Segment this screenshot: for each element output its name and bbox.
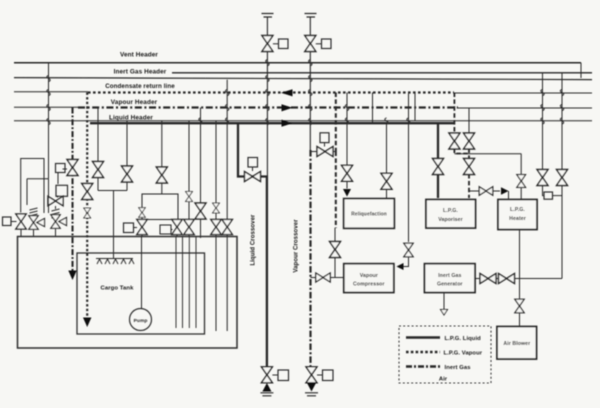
svg-text:L.P.G. Liquid: L.P.G. Liquid bbox=[445, 336, 482, 342]
arrow: inert gas into tank bbox=[68, 271, 76, 281]
valve on vent mast 1 bbox=[262, 36, 273, 52]
wire: square to inert valve stub bbox=[63, 168, 68, 170]
arrow: shore connection vapour bbox=[307, 383, 316, 392]
wire: reliq inlet col x349 bbox=[346, 93, 348, 189]
wire: thick liquid drop to vaporizer x438 bbox=[437, 123, 439, 198]
wire: dome left drop bbox=[141, 235, 143, 237]
wire: col x542.5 bbox=[543, 73, 545, 196]
svg-text:Heater: Heater bbox=[509, 216, 526, 222]
wire: dome square stub bbox=[171, 229, 173, 231]
vent mast 2 riser bbox=[309, 17, 311, 150]
actuator square shore liquid bbox=[272, 370, 288, 381]
reliquefaction box bbox=[344, 199, 395, 229]
wire: square to valve stub bbox=[11, 221, 17, 223]
wire: dome right drop bbox=[176, 235, 178, 237]
valve col x349 bbox=[342, 165, 353, 181]
vent mast 1 riser bbox=[266, 17, 268, 177]
shore flange bars vapour bbox=[305, 393, 318, 396]
shore flange bars liquid bbox=[260, 393, 273, 396]
arrow into reliquefaction bbox=[343, 189, 351, 197]
relief valve cluster 1 body (3-way) bbox=[29, 216, 45, 230]
dome square below bbox=[160, 225, 171, 234]
valve on vapour return drop bbox=[82, 184, 93, 200]
arrow: vapour header right arrow bbox=[282, 104, 293, 111]
svg-text:Vent Header: Vent Header bbox=[120, 52, 158, 59]
valve col x384 bbox=[381, 173, 392, 189]
label: L.P.G. Heater bbox=[509, 207, 526, 222]
LPG vaporizer box bbox=[426, 200, 476, 229]
spray nozzles bbox=[97, 259, 134, 264]
shore valve vapour crossover bbox=[306, 367, 317, 383]
valve col x200.5 bbox=[195, 203, 206, 219]
wire: liquid crossover (thick) bbox=[238, 123, 267, 367]
wire: condensate thin right bbox=[454, 92, 592, 94]
wire: condensate drop to branch (dashed) bbox=[335, 93, 337, 229]
valve on vent mast 2 bbox=[305, 36, 316, 52]
legend box bbox=[399, 326, 491, 383]
wire: square stack stems bbox=[57, 173, 60, 198]
loops mast1 at headers bbox=[266, 60, 269, 66]
tank internal line 4 bbox=[195, 237, 197, 329]
actuator square stack upper bbox=[56, 164, 66, 173]
svg-text:Reliquefaction: Reliquefaction bbox=[351, 212, 387, 218]
legend line LPG vapour bbox=[406, 351, 440, 354]
valve col x469 lower bbox=[464, 159, 475, 175]
valve col x161.8 bbox=[156, 167, 167, 183]
label: Vapour Compressor bbox=[353, 273, 385, 288]
arrow on heater branch bbox=[501, 187, 509, 194]
wire: spray col a x101 bbox=[97, 108, 99, 163]
valve on liquid crossover horizontal bbox=[245, 172, 261, 182]
wire: reliq bottom to compressor col x337.5 bbox=[334, 228, 336, 278]
wire: Inert Gas Header line bbox=[172, 72, 592, 74]
small valve dome left edge bbox=[139, 208, 146, 218]
vent mast 2 top bars bbox=[305, 14, 317, 18]
relief valve cluster 2 lower body (3-way) bbox=[51, 215, 67, 229]
wire: Liquid Header line (thick solid) bbox=[90, 122, 454, 124]
wire: col x189 bbox=[188, 121, 190, 236]
wire: spray col b x127 bbox=[126, 121, 128, 166]
wire: U leg to cluster2 bbox=[27, 179, 49, 213]
wire: left relief header U bbox=[21, 159, 44, 214]
wire: condensate end drop x454.4 (dashed) bbox=[454, 93, 469, 154]
svg-text:L.P.G. Vapour: L.P.G. Vapour bbox=[444, 351, 483, 357]
open arrow under IGG bbox=[441, 310, 448, 316]
wire: condensate return thin left stub bbox=[14, 91, 88, 93]
arrow into compressor corner bbox=[397, 263, 404, 270]
valve col x189 bbox=[184, 219, 194, 234]
inert gas generator box bbox=[425, 264, 476, 293]
svg-text:Inert Gas: Inert Gas bbox=[445, 365, 471, 371]
small valve col x216 bbox=[213, 203, 220, 213]
pump circle bbox=[130, 309, 152, 331]
shore valve liquid crossover bbox=[261, 367, 272, 383]
arrow: vapour return into tank bbox=[83, 318, 91, 328]
wire: vapour return drop (dotted) x87.2 bbox=[86, 93, 88, 319]
valve col x542.5 bbox=[537, 170, 548, 186]
wire: vapour col x469 lower (dashed) bbox=[468, 149, 470, 199]
valve spray col b bbox=[122, 166, 133, 182]
pump riser bbox=[141, 236, 143, 309]
wire: square to col x562 bbox=[553, 195, 563, 197]
valve on inert gas drop bbox=[67, 160, 78, 176]
valve dome left lower bbox=[137, 219, 147, 234]
wire: spray col b lower + join bbox=[98, 182, 127, 259]
svg-text:Compressor: Compressor bbox=[353, 282, 385, 288]
loops mast2 at headers bbox=[309, 60, 312, 66]
wire: cluster1 drop bbox=[33, 229, 35, 236]
svg-text:Vapour: Vapour bbox=[360, 273, 378, 279]
valve compressor suction bbox=[316, 273, 330, 282]
svg-text:Cargo Tank: Cargo Tank bbox=[101, 286, 135, 292]
wire: inert gas drop (dash-dot) x72.5 bbox=[71, 108, 73, 272]
svg-text:Liquid Crossover: Liquid Crossover bbox=[251, 214, 257, 266]
wire: vapour crossover (dashed thick) bbox=[309, 150, 311, 367]
wire: vent header right end drop bbox=[580, 63, 582, 78]
arrow: condensate left arrow bbox=[281, 89, 293, 96]
valve col x408.5 bbox=[404, 243, 413, 257]
valve left manifold bbox=[16, 214, 26, 229]
wire: left drop from vent header x48.5 bbox=[48, 63, 50, 179]
wire: col x562 bbox=[561, 73, 563, 279]
wire: spray col a lower bbox=[97, 178, 99, 191]
relief valve cluster 2 upper bowtie bbox=[48, 196, 63, 206]
vent mast 1 top bars bbox=[262, 14, 274, 18]
valve col x521.2 bbox=[517, 175, 526, 188]
valve on crossover branch bbox=[317, 147, 333, 157]
actuator square shore vapour bbox=[317, 370, 333, 381]
label: Inert Gas Generator bbox=[437, 273, 463, 288]
valve col x216 bbox=[211, 219, 221, 234]
wire: col x200.5 bbox=[200, 108, 202, 239]
valve on dome box right bbox=[172, 219, 182, 234]
legend line inert gas bbox=[406, 365, 440, 368]
wire: col x161.8 from header bbox=[161, 121, 163, 167]
wire: Vapour Header line (dash-dot) bbox=[78, 106, 458, 108]
wire: crossover branch to condensate drop bbox=[311, 151, 336, 153]
valve IGG discharge 2 bbox=[499, 274, 515, 284]
svg-text:Vapour Header: Vapour Header bbox=[111, 99, 158, 106]
wire: vapour header thin left stub bbox=[14, 106, 78, 108]
wire: branch vaporizer to heater bbox=[469, 191, 509, 200]
wire: stub x415 bbox=[414, 93, 416, 121]
tank internal line 3 bbox=[188, 237, 190, 329]
arrow: liquid header right arrow bbox=[282, 120, 293, 127]
valve col x227.2 bbox=[222, 219, 232, 234]
air blower box bbox=[497, 327, 537, 360]
arrow: shore connection liquid bbox=[262, 383, 271, 392]
valve col x454.4 bbox=[449, 133, 460, 149]
wire: IGG discharge line bbox=[475, 278, 562, 280]
valve blower column bbox=[515, 299, 524, 313]
wire: vapour col x469 bbox=[468, 108, 470, 134]
valve col x469 upper bbox=[464, 133, 475, 149]
valve IGG discharge 1 bbox=[480, 274, 496, 284]
valve spray col a bbox=[93, 162, 104, 178]
svg-text:Vapour Crossover: Vapour Crossover bbox=[294, 219, 300, 273]
svg-text:Inert Gas Header: Inert Gas Header bbox=[114, 69, 167, 76]
svg-text:Generator: Generator bbox=[437, 282, 463, 288]
label: L.P.G. Vaporiser bbox=[438, 208, 463, 223]
valve col x562 bbox=[557, 170, 568, 186]
svg-text:Vaporiser: Vaporiser bbox=[438, 217, 463, 223]
wire: vapour header thin right bbox=[458, 107, 592, 109]
wire: col x216 bbox=[215, 121, 217, 331]
wire: reliq inlet col x384 bbox=[386, 123, 388, 198]
svg-text:Liquid Header: Liquid Header bbox=[109, 114, 153, 121]
vapour compressor box bbox=[344, 264, 394, 293]
wire: Vent Header line bbox=[14, 62, 581, 64]
tank internal line 2 bbox=[182, 237, 184, 329]
valve on heater branch bbox=[479, 187, 493, 196]
wire: cluster2 drop bbox=[55, 228, 57, 237]
wire: liquid header thin line bbox=[14, 120, 592, 122]
relief valve cluster 2 spring bbox=[52, 206, 60, 218]
actuator square pump col bbox=[124, 223, 138, 233]
tank internal line 1 bbox=[175, 237, 177, 329]
LPG heater box bbox=[498, 200, 537, 230]
actuator square far left bbox=[3, 217, 12, 226]
dome manifold box bbox=[142, 194, 178, 220]
svg-text:Condensate return line: Condensate return line bbox=[105, 83, 175, 90]
wire: stub x372.5 bbox=[372, 93, 374, 124]
wire: col x227.2 bbox=[226, 80, 228, 331]
svg-text:L.P.G.: L.P.G. bbox=[510, 207, 525, 213]
svg-text:Pump: Pump bbox=[134, 318, 148, 324]
wire: col x161.8 lower bbox=[161, 183, 163, 194]
actuator square above branch valve bbox=[320, 133, 329, 147]
wire: compressor discharge col x408.5 bbox=[403, 93, 409, 267]
wire: upper branch to heater x521.2 bbox=[454, 154, 521, 200]
wire: IGG bottom stub bbox=[443, 293, 445, 310]
wire: heater-blower column x519 bbox=[519, 230, 521, 327]
wire: compressor suction from vapour crossover bbox=[310, 277, 343, 279]
wire: Condensate return line (dotted) bbox=[88, 91, 454, 93]
svg-text:L.P.G.: L.P.G. bbox=[443, 208, 458, 214]
actuator square stack lower bbox=[56, 185, 68, 196]
valve on thick drop bbox=[433, 159, 444, 175]
pressure control square bbox=[544, 192, 553, 199]
cargo tank inner rectangle bbox=[77, 253, 205, 334]
valve col x337.5 bbox=[330, 242, 341, 258]
legend line LPG liquid bbox=[406, 336, 440, 339]
wire: condensate upper thin line bbox=[14, 78, 592, 80]
actuator square vent mast 2 bbox=[316, 39, 331, 49]
small valve col x189 upper bbox=[186, 192, 193, 202]
relief valve cluster 1 spring bbox=[30, 208, 38, 216]
spray header in tank bbox=[96, 258, 133, 260]
actuator square above liquid crossover valve bbox=[248, 158, 258, 172]
svg-text:Air Blower: Air Blower bbox=[503, 341, 530, 347]
actuator square vent mast 1 bbox=[273, 39, 288, 49]
svg-text:Inert Gas: Inert Gas bbox=[438, 273, 461, 279]
svg-text:Air: Air bbox=[439, 377, 448, 383]
wire: valve down to tank top bbox=[20, 229, 22, 236]
hold space outer rectangle bbox=[18, 237, 238, 349]
small valve on vapour return drop bbox=[84, 208, 91, 218]
